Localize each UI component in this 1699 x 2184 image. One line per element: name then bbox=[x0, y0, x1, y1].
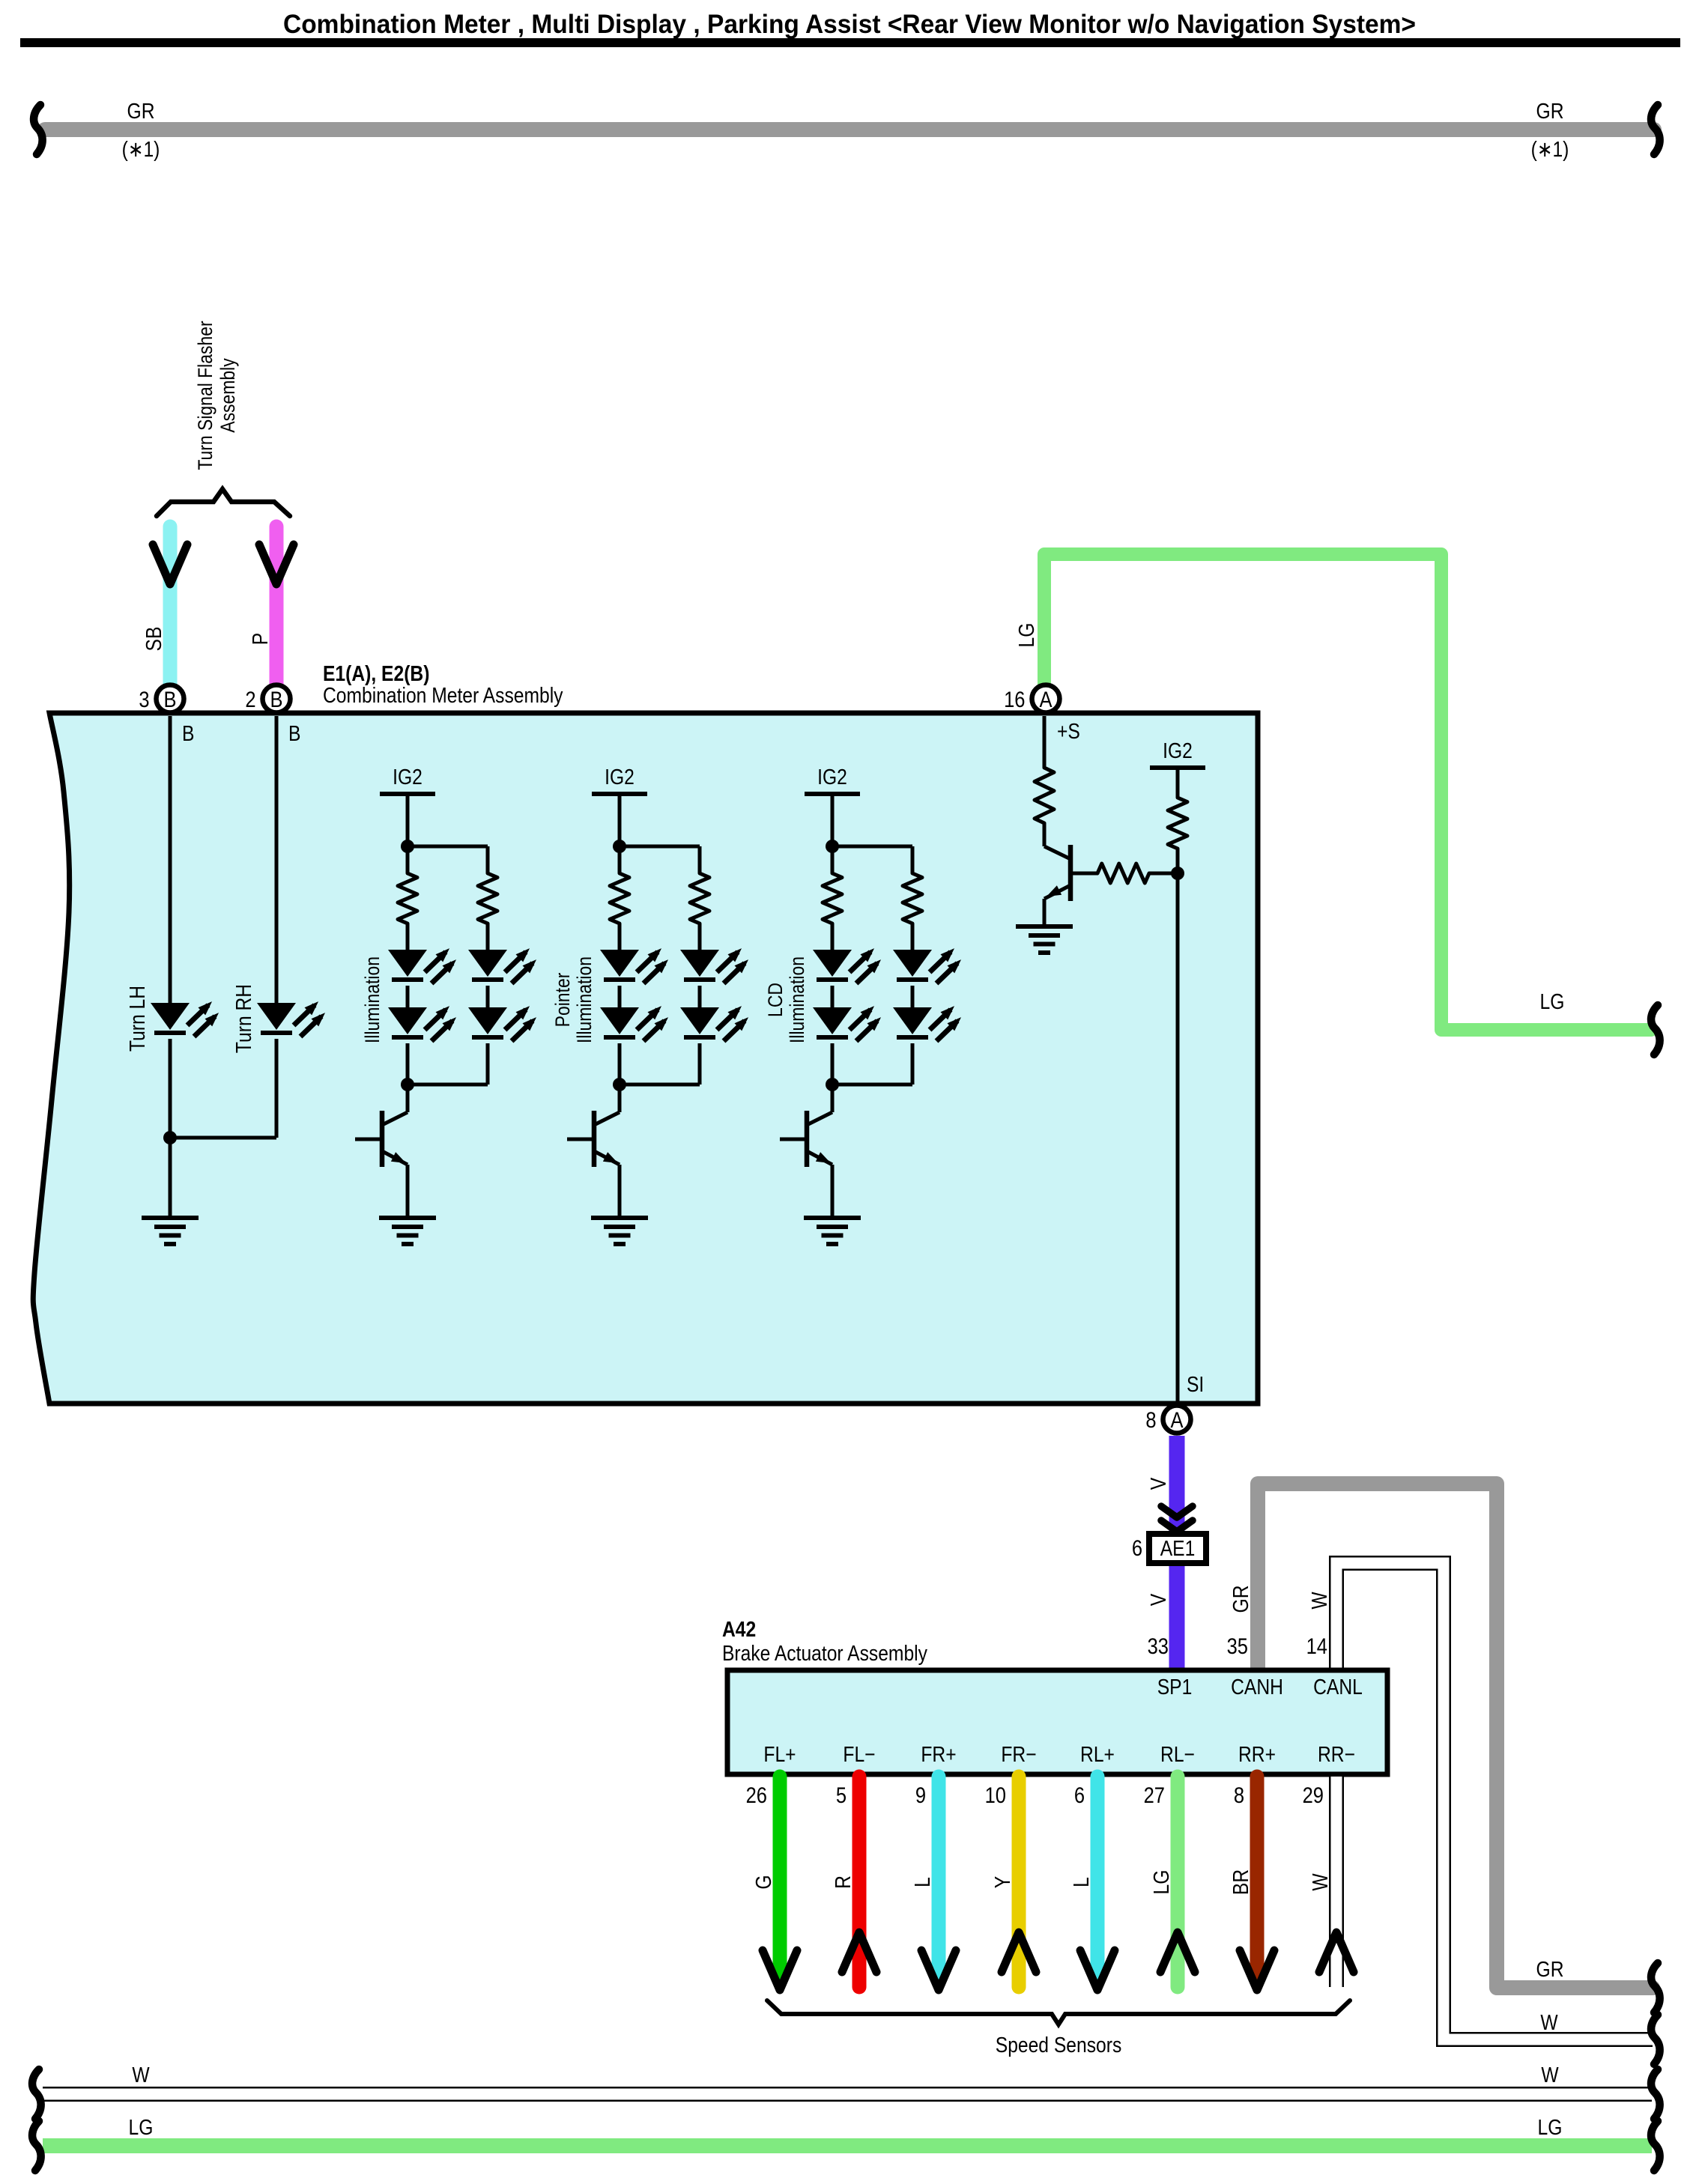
svg-text:W: W bbox=[1308, 1873, 1332, 1891]
svg-text:BR: BR bbox=[1229, 1869, 1253, 1895]
svg-text:LCD: LCD bbox=[764, 983, 787, 1017]
svg-text:RR−: RR− bbox=[1318, 1742, 1355, 1766]
svg-text:L: L bbox=[910, 1877, 934, 1887]
svg-text:AE1: AE1 bbox=[1160, 1536, 1196, 1560]
svg-text:G: G bbox=[751, 1875, 775, 1889]
svg-text:Pointer: Pointer bbox=[551, 973, 574, 1028]
svg-text:Illumination: Illumination bbox=[361, 956, 384, 1043]
svg-text:R: R bbox=[831, 1875, 855, 1889]
svg-text:E1(A), E2(B): E1(A), E2(B) bbox=[323, 661, 429, 685]
svg-text:RL−: RL− bbox=[1160, 1742, 1195, 1766]
svg-text:14: 14 bbox=[1306, 1634, 1327, 1658]
svg-text:29: 29 bbox=[1303, 1783, 1324, 1807]
svg-text:FR−: FR− bbox=[1001, 1742, 1036, 1766]
svg-text:35: 35 bbox=[1227, 1634, 1248, 1658]
svg-text:LG: LG bbox=[1540, 989, 1565, 1013]
svg-text:16: 16 bbox=[1004, 687, 1025, 712]
svg-text:10: 10 bbox=[985, 1783, 1006, 1807]
svg-text:FL+: FL+ bbox=[763, 1742, 796, 1766]
svg-text:W: W bbox=[132, 2063, 150, 2087]
svg-text:Brake Actuator Assembly: Brake Actuator Assembly bbox=[722, 1641, 927, 1665]
svg-text:9: 9 bbox=[915, 1783, 926, 1807]
svg-text:B: B bbox=[270, 687, 282, 712]
svg-text:6: 6 bbox=[1132, 1535, 1142, 1560]
svg-text:LG: LG bbox=[129, 2115, 154, 2139]
svg-text:V: V bbox=[1146, 1478, 1170, 1490]
svg-text:B: B bbox=[182, 721, 194, 745]
svg-text:Speed Sensors: Speed Sensors bbox=[996, 2033, 1122, 2057]
svg-text:RL+: RL+ bbox=[1080, 1742, 1115, 1766]
svg-text:IG2: IG2 bbox=[817, 765, 847, 789]
svg-text:CANH: CANH bbox=[1231, 1675, 1283, 1699]
svg-text:Combination Meter Assembly: Combination Meter Assembly bbox=[323, 683, 563, 707]
svg-text:SP1: SP1 bbox=[1157, 1675, 1193, 1699]
svg-text:Illumination: Illumination bbox=[786, 956, 808, 1043]
svg-text:+S: +S bbox=[1057, 719, 1080, 743]
svg-text:2: 2 bbox=[245, 687, 255, 712]
svg-text:CANL: CANL bbox=[1313, 1675, 1363, 1699]
svg-text:FR+: FR+ bbox=[921, 1742, 956, 1766]
svg-text:IG2: IG2 bbox=[1163, 738, 1193, 762]
svg-text:Turn LH: Turn LH bbox=[125, 986, 149, 1052]
svg-text:Turn Signal Flasher: Turn Signal Flasher bbox=[194, 321, 216, 470]
svg-text:Illumination: Illumination bbox=[573, 956, 596, 1043]
svg-text:8: 8 bbox=[1145, 1407, 1156, 1432]
svg-text:GR: GR bbox=[1229, 1586, 1253, 1613]
svg-text:P: P bbox=[248, 633, 272, 645]
svg-text:RR+: RR+ bbox=[1238, 1742, 1276, 1766]
svg-text:W: W bbox=[1307, 1592, 1331, 1610]
svg-text:GR: GR bbox=[1536, 1957, 1564, 1981]
svg-text:B: B bbox=[288, 721, 300, 745]
svg-text:27: 27 bbox=[1144, 1783, 1165, 1807]
svg-text:A: A bbox=[1170, 1407, 1183, 1432]
svg-text:V: V bbox=[1146, 1594, 1170, 1606]
svg-text:LG: LG bbox=[1014, 623, 1038, 648]
svg-text:6: 6 bbox=[1074, 1783, 1085, 1807]
svg-text:W: W bbox=[1540, 2010, 1558, 2034]
svg-text:FL−: FL− bbox=[843, 1742, 875, 1766]
svg-text:(∗1): (∗1) bbox=[1531, 137, 1569, 161]
svg-text:L: L bbox=[1069, 1877, 1093, 1887]
svg-text:3: 3 bbox=[139, 687, 149, 712]
svg-text:A42: A42 bbox=[722, 1617, 756, 1641]
svg-text:SB: SB bbox=[142, 627, 166, 652]
svg-text:W: W bbox=[1541, 2063, 1559, 2087]
svg-text:33: 33 bbox=[1148, 1634, 1169, 1658]
svg-text:LG: LG bbox=[1149, 1870, 1173, 1895]
svg-text:IG2: IG2 bbox=[393, 765, 423, 789]
svg-text:IG2: IG2 bbox=[605, 765, 635, 789]
svg-text:Y: Y bbox=[990, 1876, 1014, 1888]
svg-text:Combination Meter , Multi Disp: Combination Meter , Multi Display , Park… bbox=[283, 10, 1416, 39]
svg-text:B: B bbox=[163, 687, 176, 712]
svg-text:SI: SI bbox=[1187, 1372, 1204, 1396]
svg-text:5: 5 bbox=[836, 1783, 847, 1807]
svg-text:A: A bbox=[1039, 687, 1052, 712]
svg-text:GR: GR bbox=[1536, 99, 1564, 123]
svg-text:(∗1): (∗1) bbox=[122, 137, 160, 161]
svg-text:26: 26 bbox=[746, 1783, 767, 1807]
svg-text:8: 8 bbox=[1234, 1783, 1244, 1807]
svg-text:Turn RH: Turn RH bbox=[231, 984, 255, 1053]
svg-text:Assembly: Assembly bbox=[216, 358, 239, 433]
svg-text:LG: LG bbox=[1538, 2115, 1563, 2139]
svg-text:GR: GR bbox=[127, 99, 155, 123]
